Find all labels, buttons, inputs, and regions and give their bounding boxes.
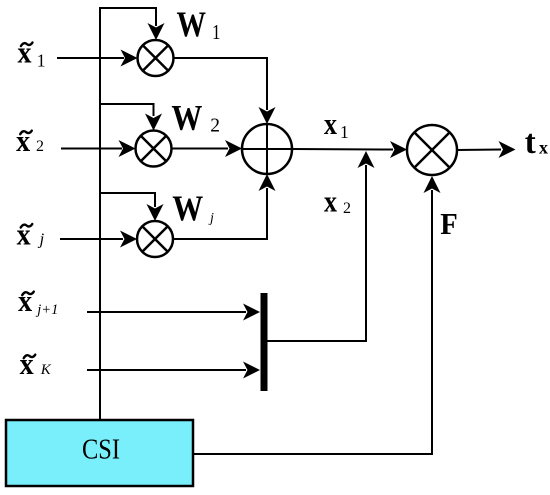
svg-text:x: x: [17, 217, 31, 252]
svg-text:j+1: j+1: [35, 302, 58, 318]
svg-text:x: x: [324, 183, 337, 218]
label W2: [171, 98, 220, 138]
wire: output tx from multiplier F (arrow right): [457, 141, 516, 158]
svg-text:x: x: [16, 123, 30, 158]
svg-text:W: W: [172, 188, 203, 228]
label Wj: [172, 188, 214, 228]
label W1: [177, 4, 221, 44]
label x~j+1 input: [18, 283, 58, 318]
label x~2 input: [16, 123, 44, 158]
svg-text:K: K: [40, 362, 52, 378]
wire: input x~1 arrow into W1: [57, 50, 138, 67]
svg-text:W: W: [177, 4, 207, 44]
wire: CSI bus vertical from top elbow down to CSI box: [99, 7, 101, 420]
svg-text:2: 2: [36, 138, 44, 155]
combiner bar: [261, 293, 268, 391]
wire: CSI feedback from CSI box up into F (arrow up): [193, 176, 441, 454]
wire: adder output x1 into multiplier F (arrow right): [292, 141, 407, 158]
label tx output: [525, 124, 548, 161]
multiplier W2 (circle with cross): [136, 131, 172, 167]
multiplier Wj (circle with cross): [137, 221, 173, 257]
CSI box: [6, 420, 193, 486]
wire: input x~2 arrow into W2: [61, 140, 136, 157]
wire: branch from bus to multiplier W2 (arrow down): [100, 104, 162, 131]
svg-text:x: x: [324, 106, 337, 141]
wire: W1 output to top of adder (arrow down): [174, 58, 276, 124]
svg-text:2: 2: [343, 200, 351, 217]
label x1 (net): [324, 106, 349, 142]
svg-text:CSI: CSI: [82, 434, 120, 466]
wire: branch from bus to multiplier Wj (arrow down): [100, 193, 164, 221]
svg-text:2: 2: [210, 115, 220, 136]
label x~1 input: [18, 35, 46, 71]
svg-text:1: 1: [37, 50, 46, 70]
adder (summation circle with plus): [242, 124, 292, 174]
svg-text:x: x: [539, 137, 548, 157]
svg-text:x: x: [20, 346, 34, 381]
label x~j input: [17, 217, 45, 252]
label x2 (net): [324, 183, 351, 218]
wire: input x~j+1 arrow into combiner bar: [87, 304, 260, 321]
svg-text:j: j: [38, 230, 45, 249]
wire: Wj output to bottom of adder (arrow up): [173, 174, 276, 239]
wire: W2 output to left of adder (arrow right): [172, 140, 243, 157]
multiplier W1 (circle with cross): [138, 40, 174, 76]
svg-text:x: x: [18, 283, 32, 318]
svg-text:x: x: [18, 35, 32, 70]
wire: x2 from combiner bar up into main line (arrow up): [268, 151, 375, 341]
label x~K input: [20, 346, 52, 381]
svg-text:1: 1: [340, 122, 349, 142]
svg-text:F: F: [440, 206, 458, 241]
wire: branch from bus to multiplier W1 (top elbow, arrow down): [100, 8, 165, 40]
svg-text:t: t: [525, 124, 537, 161]
svg-text:1: 1: [212, 20, 221, 44]
multiplier F (circle with cross): [407, 125, 457, 175]
wire: input x~j arrow into Wj: [60, 231, 137, 248]
svg-text:W: W: [171, 98, 202, 138]
wire: input x~K arrow into combiner bar: [87, 362, 260, 379]
